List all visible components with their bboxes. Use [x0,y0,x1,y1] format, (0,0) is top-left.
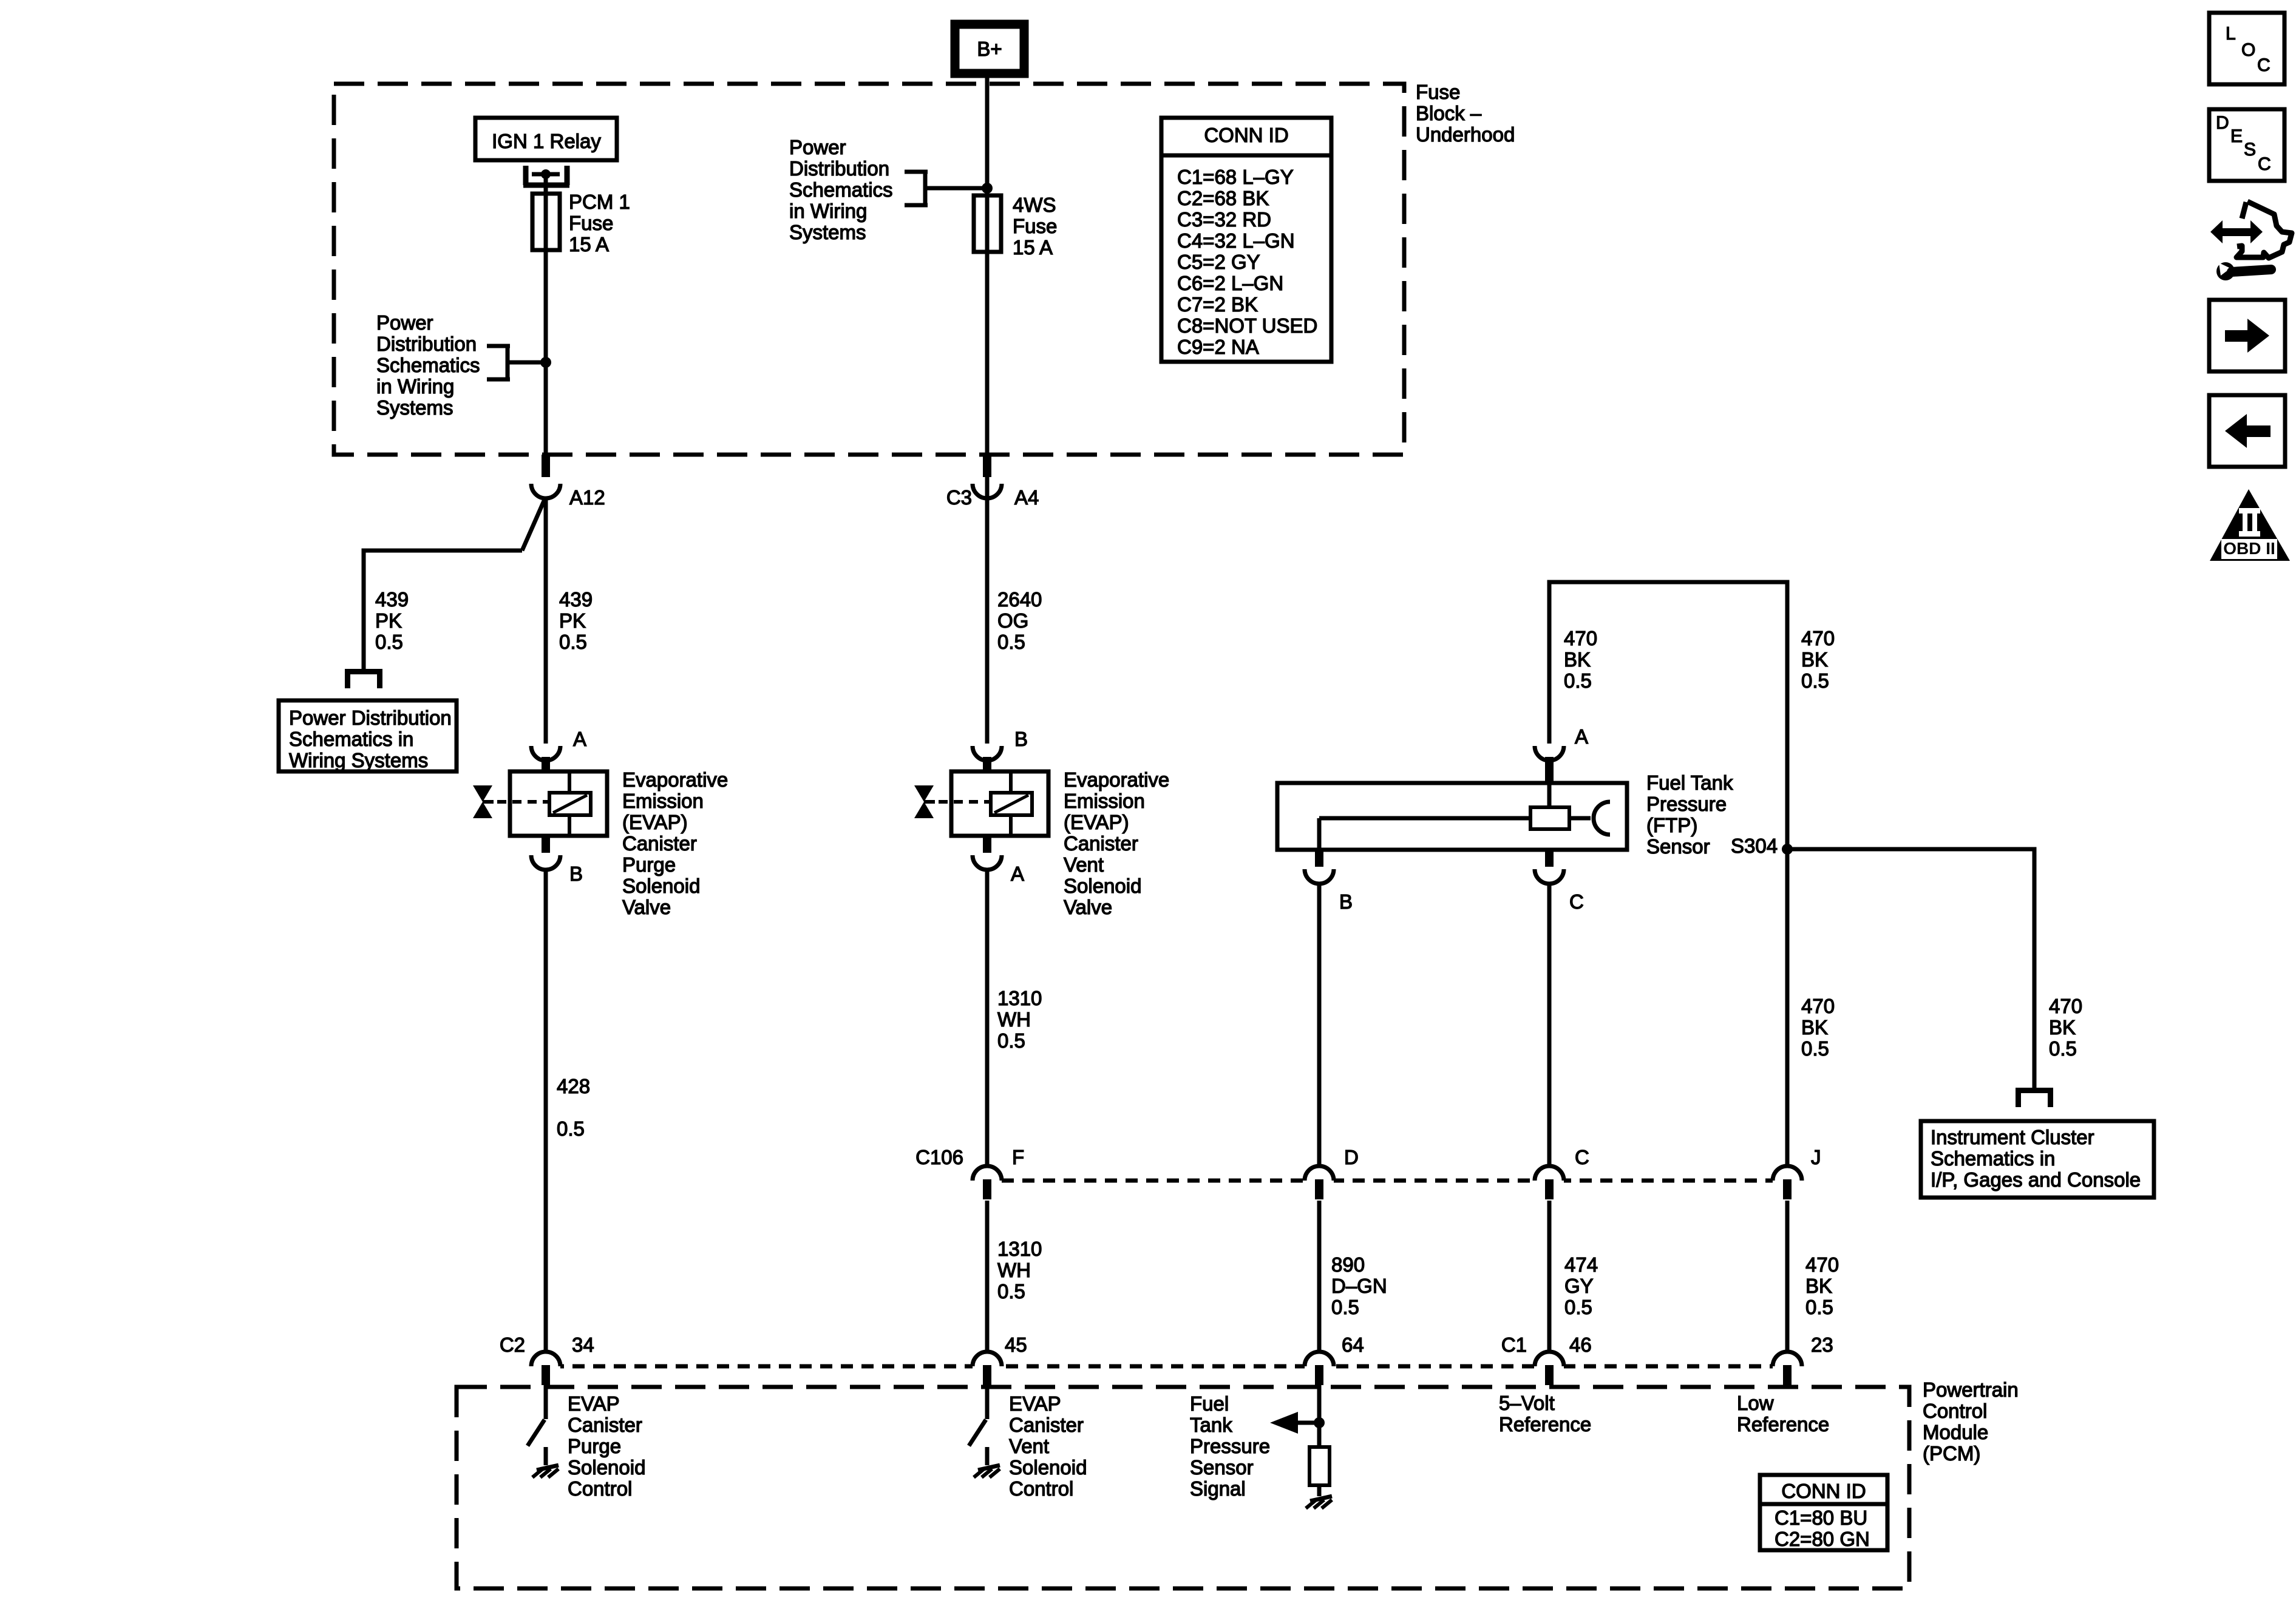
svg-text:439: 439 [375,588,409,611]
svg-text:46: 46 [1569,1334,1592,1356]
svg-text:0.5: 0.5 [997,1280,1025,1303]
svg-text:J: J [1811,1146,1821,1168]
svg-text:1310: 1310 [997,987,1042,1009]
svg-text:in Wiring: in Wiring [376,375,454,398]
svg-text:Evaporative: Evaporative [622,768,728,791]
svg-text:OG: OG [997,609,1028,632]
svg-text:C: C [2257,55,2271,75]
svg-text:Solenoid: Solenoid [1009,1456,1087,1479]
svg-text:BK: BK [1801,1016,1828,1039]
svg-text:470: 470 [1801,627,1835,649]
svg-text:C: C [2258,154,2271,174]
svg-text:2640: 2640 [997,588,1042,611]
svg-text:CONN ID: CONN ID [1781,1480,1866,1502]
svg-text:Schematics: Schematics [376,354,480,376]
svg-text:Reference: Reference [1499,1413,1591,1435]
svg-text:WH: WH [997,1259,1031,1281]
svg-text:Schematics in: Schematics in [289,728,413,750]
svg-text:in Wiring: in Wiring [789,200,867,222]
svg-text:Instrument Cluster: Instrument Cluster [1931,1126,2094,1148]
svg-text:Distribution: Distribution [789,157,889,180]
svg-text:Tank: Tank [1190,1414,1232,1436]
svg-text:B+: B+ [977,38,1002,60]
svg-text:428: 428 [557,1075,590,1097]
svg-text:C6=2 L–GN: C6=2 L–GN [1177,272,1283,294]
svg-text:GY: GY [1564,1275,1594,1297]
svg-text:470: 470 [2049,995,2082,1017]
svg-text:C5=2 GY: C5=2 GY [1177,251,1260,273]
svg-text:Canister: Canister [568,1414,642,1436]
svg-text:E: E [2230,126,2243,146]
svg-text:C2=68 BK: C2=68 BK [1177,187,1269,209]
svg-text:Fuel Tank: Fuel Tank [1646,771,1733,794]
svg-text:S304: S304 [1731,835,1778,857]
svg-text:C3: C3 [946,486,972,509]
svg-text:Fuel: Fuel [1190,1392,1229,1415]
svg-text:Solenoid: Solenoid [568,1456,645,1479]
svg-text:CONN ID: CONN ID [1204,124,1288,146]
svg-text:IGN 1 Relay: IGN 1 Relay [492,130,601,152]
svg-text:Purge: Purge [622,853,676,876]
svg-text:S: S [2244,140,2256,160]
svg-text:Signal: Signal [1190,1477,1246,1500]
svg-text:I/P, Gages and Console: I/P, Gages and Console [1931,1168,2141,1191]
svg-text:0.5: 0.5 [557,1117,585,1140]
svg-text:Pressure: Pressure [1190,1435,1270,1457]
svg-text:(FTP): (FTP) [1646,814,1697,836]
svg-text:Schematics: Schematics [789,178,893,201]
svg-text:C8=NOT USED: C8=NOT USED [1177,314,1317,337]
svg-text:470: 470 [1805,1253,1839,1276]
svg-text:C2: C2 [500,1334,525,1356]
svg-text:A: A [573,728,586,750]
svg-text:C3=32 RD: C3=32 RD [1177,208,1271,231]
svg-text:EVAP: EVAP [568,1392,620,1415]
svg-text:D: D [2216,113,2229,133]
svg-text:Sensor: Sensor [1190,1456,1254,1479]
svg-text:Vent: Vent [1064,853,1104,876]
svg-text:0.5: 0.5 [559,631,587,653]
svg-text:Valve: Valve [1064,896,1112,918]
svg-text:Canister: Canister [622,832,697,855]
svg-text:5–Volt: 5–Volt [1499,1392,1555,1414]
svg-text:0.5: 0.5 [1564,1296,1592,1318]
svg-text:B: B [1339,890,1353,913]
svg-text:0.5: 0.5 [1564,669,1592,692]
svg-text:Powertrain: Powertrain [1923,1378,2019,1401]
svg-text:PCM 1: PCM 1 [569,191,630,213]
svg-text:C: C [1569,890,1584,913]
svg-text:474: 474 [1564,1253,1598,1276]
svg-text:Module: Module [1923,1421,1988,1443]
svg-text:0.5: 0.5 [1805,1296,1833,1318]
svg-text:OBD II: OBD II [2223,539,2275,558]
svg-text:L: L [2226,24,2236,44]
svg-text:C4=32 L–GN: C4=32 L–GN [1177,229,1295,252]
svg-text:C1=80 BU: C1=80 BU [1775,1506,1867,1529]
svg-text:Block –: Block – [1416,102,1482,124]
svg-text:Emission: Emission [1064,790,1145,812]
svg-text:Canister: Canister [1009,1414,1084,1436]
svg-text:A4: A4 [1014,486,1039,509]
svg-text:15 A: 15 A [1013,236,1053,259]
svg-text:Fuse: Fuse [569,212,613,234]
svg-text:0.5: 0.5 [1801,669,1829,692]
svg-text:470: 470 [1564,627,1597,649]
svg-text:Canister: Canister [1064,832,1138,855]
svg-text:B: B [569,863,583,885]
svg-text:0.5: 0.5 [1801,1037,1829,1060]
svg-text:Vent: Vent [1009,1435,1049,1457]
svg-text:Solenoid: Solenoid [622,875,700,897]
svg-text:Fuse: Fuse [1416,81,1460,103]
svg-text:F: F [1012,1146,1024,1168]
svg-text:Power Distribution: Power Distribution [289,707,452,729]
svg-text:Purge: Purge [568,1435,621,1457]
svg-text:BK: BK [1564,648,1591,671]
svg-text:C7=2 BK: C7=2 BK [1177,293,1258,316]
svg-text:Power: Power [789,136,846,158]
svg-text:C2=80 GN: C2=80 GN [1775,1528,1870,1550]
svg-text:Distribution: Distribution [376,333,477,355]
svg-text:BK: BK [1805,1275,1832,1297]
svg-text:0.5: 0.5 [1331,1296,1359,1318]
svg-text:WH: WH [997,1008,1031,1031]
svg-text:Sensor: Sensor [1646,835,1710,858]
svg-text:Reference: Reference [1737,1413,1829,1435]
svg-text:0.5: 0.5 [2049,1037,2077,1060]
svg-text:Control: Control [1009,1477,1073,1500]
svg-text:Solenoid: Solenoid [1064,875,1141,897]
svg-text:Power: Power [376,311,433,334]
svg-text:PK: PK [375,609,402,632]
svg-text:D–GN: D–GN [1331,1275,1387,1297]
svg-text:0.5: 0.5 [375,631,403,653]
svg-text:23: 23 [1811,1334,1833,1356]
svg-text:Wiring Systems: Wiring Systems [289,749,428,771]
svg-text:Underhood: Underhood [1416,123,1515,146]
svg-text:Schematics in: Schematics in [1931,1147,2055,1170]
svg-text:Control: Control [568,1477,632,1500]
svg-text:470: 470 [1801,995,1835,1017]
svg-text:Systems: Systems [789,221,866,243]
svg-text:A: A [1011,863,1024,885]
svg-text:45: 45 [1005,1334,1027,1356]
svg-text:Fuse: Fuse [1013,215,1057,237]
svg-text:(EVAP): (EVAP) [622,811,688,833]
svg-text:C: C [1575,1146,1589,1168]
svg-text:0.5: 0.5 [997,631,1025,653]
svg-text:0.5: 0.5 [997,1029,1025,1052]
svg-text:PK: PK [559,609,586,632]
svg-text:B: B [1014,728,1028,750]
svg-text:C1=68 L–GY: C1=68 L–GY [1177,166,1294,188]
svg-text:C106: C106 [915,1146,963,1168]
svg-text:64: 64 [1342,1334,1364,1356]
svg-text:4WS: 4WS [1013,194,1056,216]
svg-text:(PCM): (PCM) [1923,1442,1980,1465]
svg-text:Pressure: Pressure [1646,793,1727,815]
svg-text:A12: A12 [569,486,605,509]
svg-text:BK: BK [1801,648,1828,671]
svg-text:439: 439 [559,588,593,611]
svg-text:Systems: Systems [376,396,453,419]
svg-text:Valve: Valve [622,896,671,918]
svg-text:A: A [1575,725,1588,748]
svg-text:D: D [1344,1146,1359,1168]
svg-text:BK: BK [2049,1016,2076,1039]
svg-text:O: O [2241,40,2255,60]
svg-text:C9=2 NA: C9=2 NA [1177,336,1259,358]
svg-text:Evaporative: Evaporative [1064,768,1169,791]
svg-text:34: 34 [572,1334,594,1356]
svg-text:Low: Low [1737,1392,1774,1414]
svg-text:C1: C1 [1501,1334,1527,1356]
svg-text:890: 890 [1331,1253,1365,1276]
svg-text:Emission: Emission [622,790,704,812]
svg-text:1310: 1310 [997,1238,1042,1260]
svg-text:15 A: 15 A [569,233,609,256]
svg-text:Control: Control [1923,1400,1987,1422]
svg-text:(EVAP): (EVAP) [1064,811,1129,833]
svg-text:EVAP: EVAP [1009,1392,1061,1415]
